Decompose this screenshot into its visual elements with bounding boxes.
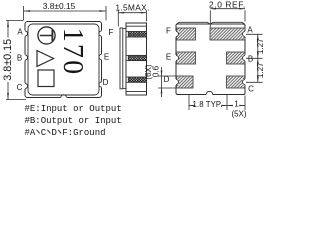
svg-text:1.27: 1.27 (256, 38, 265, 54)
dimension 0.6 (6X) pad width (158, 67, 176, 97)
svg-text:3.8±0.15: 3.8±0.15 (2, 39, 14, 81)
pad F (bottom view) (177, 28, 196, 40)
top view package outer body outline (25, 22, 102, 98)
svg-text:170: 170 (57, 28, 88, 77)
castellation notch pad A (bottom view right edge) (242, 31, 246, 37)
svg-text:1: 1 (234, 100, 238, 109)
svg-text:3.8±0.15: 3.8±0.15 (43, 1, 76, 11)
castellation notch pin F (top view right edge) (99, 31, 103, 37)
svg-text:B: B (17, 54, 22, 63)
castellation notch pad B (bottom view right edge) (242, 55, 246, 61)
svg-text:1.5MAX.: 1.5MAX. (115, 2, 149, 12)
triangle marking (37, 51, 54, 67)
svg-text:B: B (248, 55, 253, 64)
castellation notch pin D (top view right edge) (99, 82, 103, 88)
square marking (38, 70, 54, 87)
side view terminal band 2 (126, 55, 147, 60)
svg-text:1.8 TYP.: 1.8 TYP. (193, 100, 223, 109)
svg-text:A: A (17, 27, 23, 36)
center castellation notch (top view bottom edge) (61, 95, 68, 99)
dimension 2.0 REF. (pad A length) (210, 8, 245, 28)
svg-text:F: F (166, 27, 171, 36)
side view lid seam ticks (123, 28, 126, 88)
svg-text:E: E (166, 53, 171, 62)
separator mark 2 (line 3) (47, 130, 50, 134)
bottom view package outline (176, 24, 245, 95)
svg-text:C: C (248, 85, 254, 94)
svg-text:C: C (17, 83, 23, 92)
svg-text:A: A (247, 26, 253, 35)
bottom view top ridge segment left (177, 22, 210, 24)
pad A long orientation pad (bottom view) (210, 28, 245, 40)
separator mark 3 (line 3) (58, 130, 61, 134)
svg-text:#E:Input or Output: #E:Input or Output (25, 104, 122, 114)
castellation notch pad C (bottom view right edge) (242, 79, 246, 85)
pad D (bottom view) (177, 76, 194, 88)
castellation notch pad E (bottom view left edge) (175, 55, 179, 61)
dimension 1.5MAX. (package height) (118, 11, 146, 27)
svg-text:#B:Output or Input: #B:Output or Input (25, 116, 122, 126)
svg-text:#A C D F:Ground: #A C D F:Ground (25, 128, 106, 138)
pad C (bottom view) (227, 76, 246, 88)
svg-text:E: E (104, 53, 109, 62)
dimension 1.8 TYP. pad column gap (189, 95, 227, 111)
side view ceramic body (126, 23, 147, 95)
castellation notch pin A (top view left edge) (24, 31, 28, 37)
side view terminal band 3 (126, 77, 147, 82)
dimension 1.27 pad pitch B-C (246, 58, 263, 82)
side view terminal band 1 (126, 32, 147, 38)
castellation notch pin B (top view left edge) (24, 55, 28, 61)
castellation notch pin C (top view left edge) (24, 83, 28, 89)
dimension 1 (5X) pad length (227, 96, 245, 111)
separator mark 1 (line 3) (37, 130, 40, 134)
castellation notch pad D (bottom view left edge) (175, 79, 179, 85)
side view metal lid (120, 28, 123, 89)
pad E (bottom view) (177, 52, 196, 64)
svg-text:(6X): (6X) (144, 64, 153, 79)
center castellation notch (bottom view bottom edge) (206, 91, 213, 95)
logo circled-T marking (38, 27, 55, 44)
side view body bottom layer line (126, 91, 147, 93)
svg-text:(5X): (5X) (231, 109, 246, 118)
top view lid outline (inner) (28, 24, 99, 95)
svg-text:1.27: 1.27 (256, 62, 265, 78)
bottom view top ridge segment right (211, 22, 245, 24)
castellation notch pad F (bottom view left edge) (175, 31, 179, 37)
dimension 3.8±0.15 vertical (top view height) (6, 21, 26, 100)
svg-text:D: D (103, 78, 109, 87)
dimension 1.27 pad pitch A-B (246, 34, 263, 82)
pad B (bottom view) (227, 52, 246, 64)
castellation notch pin E (top view right edge) (99, 54, 103, 60)
dimension 3.8±0.15 horizontal (top view width) (24, 6, 107, 21)
side view body top layer line (126, 25, 147, 27)
svg-text:2.0 REF.: 2.0 REF. (209, 0, 246, 9)
svg-text:F: F (108, 28, 113, 37)
